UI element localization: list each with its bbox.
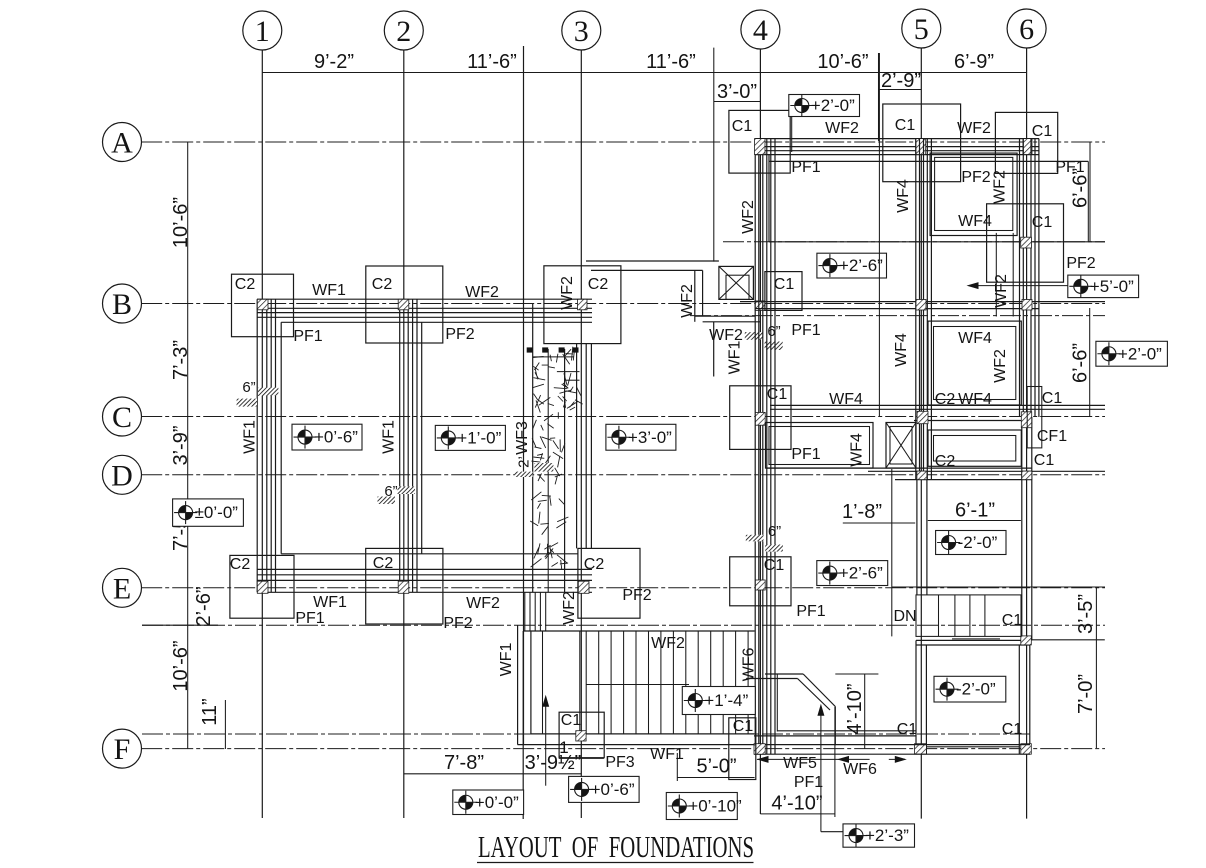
grid bubble F bbox=[103, 729, 142, 768]
svg-text:WF3: WF3 bbox=[514, 421, 531, 455]
svg-text:PF1: PF1 bbox=[796, 603, 825, 620]
svg-text:C1: C1 bbox=[774, 276, 795, 293]
rubble hatch in stair strip bbox=[530, 347, 583, 570]
column C2 at B2 bbox=[366, 266, 443, 343]
svg-text:+2’-0”: +2’-0” bbox=[811, 96, 855, 115]
svg-text:9’-2”: 9’-2” bbox=[314, 51, 354, 73]
svg-text:6’-1”: 6’-1” bbox=[955, 500, 995, 522]
svg-text:+1’-0”: +1’-0” bbox=[457, 428, 501, 447]
svg-text:WF2: WF2 bbox=[992, 349, 1009, 383]
column C2 at E3 bbox=[578, 548, 640, 618]
grid bubble 1 bbox=[243, 11, 282, 50]
svg-text:11”: 11” bbox=[199, 698, 221, 725]
stub wall x777 bbox=[776, 674, 778, 732]
column hatch A6 bbox=[1023, 139, 1032, 155]
svg-text:11’-6”: 11’-6” bbox=[646, 51, 696, 73]
wall footing WF4 room A (nested rects) bbox=[930, 153, 1017, 235]
wall grid 5 rows D-E bbox=[916, 480, 918, 595]
grid bubble A bbox=[103, 123, 142, 162]
level marker +2-6 upper bbox=[817, 253, 887, 278]
wall band below E left of stairs bbox=[524, 592, 526, 631]
svg-text:C: C bbox=[112, 401, 132, 434]
svg-text:A: A bbox=[111, 127, 133, 160]
svg-text:11’-6”: 11’-6” bbox=[467, 51, 517, 73]
svg-text:E: E bbox=[113, 572, 131, 605]
column C1 box at E4 bbox=[730, 557, 791, 606]
column hatch D5 bbox=[917, 471, 927, 480]
secondary line F2 bbox=[142, 733, 1030, 735]
level marker +2-3 bbox=[843, 824, 915, 847]
svg-text:7’-0”: 7’-0” bbox=[1075, 674, 1097, 714]
column C1 box at A6 bbox=[995, 112, 1057, 173]
level marker +0-10 bbox=[666, 793, 742, 820]
svg-text:PF1: PF1 bbox=[293, 328, 322, 345]
column C2 at B3 bbox=[544, 266, 621, 344]
svg-text:C1: C1 bbox=[1002, 721, 1023, 738]
column hatch B4 bbox=[755, 301, 765, 311]
svg-text:10’-6”: 10’-6” bbox=[817, 51, 868, 73]
svg-text:2: 2 bbox=[396, 15, 411, 48]
column hatch C6 bbox=[1021, 412, 1031, 428]
column C2 at E1 bbox=[230, 555, 294, 618]
sub dim 3'-0" bbox=[714, 101, 761, 103]
svg-text:6”: 6” bbox=[768, 523, 781, 540]
extension line y674 bbox=[835, 673, 878, 675]
dim 6'-6" upper right bbox=[1089, 142, 1091, 242]
svg-text:LAYOUT OF FOUNDATIONS: LAYOUT OF FOUNDATIONS bbox=[478, 829, 754, 864]
grid bubble B bbox=[103, 284, 142, 323]
svg-text:WF1: WF1 bbox=[242, 420, 259, 454]
stair steps detail bbox=[557, 371, 580, 373]
svg-text:PF1: PF1 bbox=[295, 610, 324, 627]
svg-text:C2: C2 bbox=[935, 391, 956, 408]
6 inch wall mark at B4 bbox=[745, 332, 763, 340]
level marker +-0-0 bbox=[173, 499, 244, 526]
svg-text:6’-9”: 6’-9” bbox=[954, 51, 994, 73]
svg-text:+0’-10”: +0’-10” bbox=[688, 797, 742, 816]
6 inch wall mark near C1 bbox=[258, 388, 278, 396]
horizontal grid line A bbox=[141, 141, 1105, 143]
section arrow up 1 bbox=[545, 703, 547, 786]
column hatch A5 bbox=[916, 139, 926, 155]
level marker +3-0 bbox=[606, 424, 676, 450]
svg-text:WF2: WF2 bbox=[465, 284, 499, 301]
svg-text:10’-6”: 10’-6” bbox=[170, 197, 192, 248]
top dimension line bbox=[262, 72, 1026, 74]
chamfered footing outline inner bbox=[746, 678, 797, 680]
svg-text:WF6: WF6 bbox=[843, 761, 877, 778]
svg-text:WF2: WF2 bbox=[993, 274, 1010, 308]
column hatch E6 bbox=[1021, 636, 1032, 645]
left dimension line bbox=[187, 142, 189, 749]
2ft wall mark at D3 bbox=[534, 463, 553, 472]
column C1 box at A4 bbox=[729, 110, 790, 173]
6 inch wall mark near D2 bbox=[398, 487, 416, 495]
svg-text:C1: C1 bbox=[895, 117, 916, 134]
column hatch at C1 bottom left bbox=[576, 731, 586, 741]
svg-text:6”: 6” bbox=[242, 379, 255, 396]
svg-text:PF2: PF2 bbox=[443, 615, 472, 632]
wall footing row F band bbox=[518, 744, 1031, 746]
svg-text:C1: C1 bbox=[732, 118, 753, 135]
wall WF2 lower step to grid4 bbox=[695, 315, 755, 317]
svg-text:WF5: WF5 bbox=[783, 755, 817, 772]
svg-text:+0’-6”: +0’-6” bbox=[314, 428, 358, 447]
column hatch F6 bbox=[1021, 744, 1032, 755]
svg-text:5: 5 bbox=[914, 13, 929, 46]
vertical grid line 2 bbox=[403, 50, 405, 819]
svg-text:PF1: PF1 bbox=[791, 446, 820, 463]
grid bubble 5 bbox=[902, 9, 941, 48]
wall stub below corridor bbox=[713, 322, 715, 377]
wall WF2 below room A bbox=[995, 233, 997, 317]
svg-text:PF2: PF2 bbox=[1066, 255, 1095, 272]
row A2 solid lines bbox=[769, 241, 1105, 243]
svg-text:6’-6”: 6’-6” bbox=[1070, 343, 1092, 383]
secondary line E2 bbox=[142, 624, 1105, 626]
level marker +1-4 bbox=[682, 687, 755, 715]
svg-text:C2: C2 bbox=[935, 453, 956, 470]
svg-text:WF2: WF2 bbox=[825, 120, 859, 137]
stair DN treads bbox=[938, 595, 940, 637]
vertical grid line 4 bbox=[759, 49, 761, 814]
level marker +2-0 top bbox=[789, 94, 860, 117]
leader from top marker bbox=[791, 117, 793, 153]
svg-text:3: 3 bbox=[574, 15, 589, 48]
secondary line A2 bbox=[723, 241, 1105, 243]
wall footing grid 3 (B3-E3) bbox=[576, 344, 578, 549]
chamfered footing outline outer bbox=[765, 673, 803, 675]
level marker +0-0 bbox=[453, 790, 524, 815]
svg-text:PF1: PF1 bbox=[791, 159, 820, 176]
grid bubble 4 bbox=[741, 10, 780, 49]
svg-text:+5’-0”: +5’-0” bbox=[1090, 277, 1134, 296]
level marker +1-0 bbox=[435, 425, 505, 450]
level marker +0-6 bottom bbox=[569, 776, 640, 802]
column C2 at E2 bbox=[366, 548, 443, 624]
wall grid 6 rows C-E bbox=[1021, 417, 1023, 640]
svg-text:10’-6”: 10’-6” bbox=[170, 640, 192, 691]
column hatch B2 bbox=[398, 299, 409, 310]
svg-text:C2: C2 bbox=[588, 276, 609, 293]
svg-text:+2’-6”: +2’-6” bbox=[839, 564, 883, 583]
svg-text:WF2: WF2 bbox=[740, 200, 757, 234]
svg-text:C1: C1 bbox=[733, 718, 754, 735]
svg-text:PF1: PF1 bbox=[794, 774, 823, 791]
svg-text:WF1: WF1 bbox=[498, 643, 515, 677]
svg-text:7’-3”: 7’-3” bbox=[170, 340, 192, 380]
row C band right: footing lines bbox=[770, 404, 1105, 406]
wall footing WF4 room C-D nested rects bbox=[928, 430, 1021, 466]
wall footing WF1 row B (grid1-grid2) and WF2 (grid2-grid3) bbox=[257, 298, 592, 300]
wall footing WF2 row A bbox=[755, 138, 1039, 140]
column X-box at CD5 bbox=[886, 423, 916, 469]
pad CF1 box bbox=[1027, 387, 1042, 448]
svg-text:+3’-0”: +3’-0” bbox=[628, 428, 672, 447]
column hatch C5 bbox=[917, 411, 928, 423]
pad strip PF row E bbox=[281, 553, 578, 555]
svg-text:1’-8”: 1’-8” bbox=[842, 501, 882, 523]
level marker +0-6 row C bbox=[292, 424, 362, 450]
svg-text:D: D bbox=[111, 459, 133, 492]
column X-box at B4 bbox=[719, 266, 754, 299]
wall footing row E bbox=[257, 568, 592, 570]
grid bubble C bbox=[103, 397, 142, 436]
row E solid right bbox=[892, 586, 1105, 588]
column hatch E4 bbox=[755, 580, 765, 590]
svg-text:WF2: WF2 bbox=[651, 635, 685, 652]
svg-text:WF4: WF4 bbox=[958, 330, 992, 347]
vertical grid line 5 bbox=[920, 48, 922, 819]
svg-text:3’-5”: 3’-5” bbox=[1075, 594, 1097, 634]
svg-text:WF2: WF2 bbox=[466, 595, 500, 612]
grid bubble D bbox=[103, 455, 142, 494]
column C1 box bottom mid bbox=[729, 718, 756, 780]
wall footing grid 5 band bbox=[915, 139, 917, 480]
wall footing WF1 grid 2 bbox=[399, 299, 401, 592]
stair block outline bbox=[517, 625, 519, 744]
stair treads big bbox=[585, 631, 587, 734]
stair strip wall WF3 left lines bbox=[523, 46, 525, 745]
black squares row bbox=[527, 347, 533, 352]
svg-text:+2’-6”: +2’-6” bbox=[839, 256, 883, 275]
svg-text:WF4: WF4 bbox=[849, 433, 866, 467]
level marker -2-0 lower bbox=[934, 676, 1006, 702]
svg-text:B: B bbox=[112, 288, 132, 321]
svg-text:3’-9½”: 3’-9½” bbox=[525, 752, 582, 774]
stair DN outline bbox=[916, 595, 1021, 637]
dim 1'-8" bbox=[843, 522, 915, 524]
svg-text:WF1: WF1 bbox=[313, 594, 347, 611]
svg-text:C1: C1 bbox=[1034, 452, 1055, 469]
svg-text:±0’-0”: ±0’-0” bbox=[195, 503, 239, 522]
svg-text:DN: DN bbox=[893, 608, 916, 625]
vertical grid line 3 bbox=[580, 50, 582, 819]
vertical grid line 1 bbox=[261, 50, 263, 819]
svg-text:C2: C2 bbox=[584, 556, 605, 573]
svg-text:C2: C2 bbox=[235, 276, 256, 293]
level marker +2-6 lower bbox=[817, 561, 888, 586]
column C1 box at A5 bbox=[883, 104, 961, 182]
dim 4'-10" bottom bbox=[760, 813, 835, 815]
dim 4'-10" rotated bbox=[864, 674, 866, 749]
column hatch E2 bbox=[398, 581, 409, 593]
dim 5'-0" bbox=[677, 777, 754, 779]
svg-text:6: 6 bbox=[1019, 13, 1034, 46]
grid bubble E bbox=[103, 568, 142, 607]
svg-text:F: F bbox=[114, 733, 131, 766]
svg-text:1: 1 bbox=[255, 15, 270, 48]
wall footing WF1 grid 1 bbox=[256, 299, 258, 592]
svg-text:4: 4 bbox=[753, 14, 768, 47]
row D band right bbox=[766, 467, 1033, 469]
grid bubble 6 bbox=[1007, 9, 1046, 48]
sub dim 2'-9" bbox=[879, 89, 922, 91]
svg-text:C2: C2 bbox=[373, 555, 394, 572]
wall footing bottom right room bbox=[916, 639, 1030, 641]
wall footing row B right bbox=[740, 301, 1105, 303]
svg-text:CF1: CF1 bbox=[1037, 428, 1067, 445]
column hatch B3 bbox=[578, 299, 588, 310]
svg-text:4’-10”: 4’-10” bbox=[844, 683, 866, 734]
line under stair room bbox=[1024, 639, 1105, 641]
pad strip PF grid 2 bbox=[421, 322, 423, 554]
column hatch A4 bbox=[755, 139, 766, 155]
svg-text:4’-10”: 4’-10” bbox=[771, 793, 822, 815]
svg-text:PF1: PF1 bbox=[791, 322, 820, 339]
svg-text:-2’-0”: -2’-0” bbox=[956, 680, 996, 699]
svg-text:WF2: WF2 bbox=[679, 284, 696, 318]
grid bubble 2 bbox=[384, 11, 423, 50]
svg-text:+0’-0”: +0’-0” bbox=[475, 793, 519, 812]
svg-text:C1: C1 bbox=[1002, 612, 1023, 629]
svg-text:WF1: WF1 bbox=[381, 420, 398, 454]
svg-text:WF2: WF2 bbox=[957, 120, 991, 137]
stair mid landing line bbox=[586, 684, 689, 686]
svg-text:PF2: PF2 bbox=[445, 326, 474, 343]
+5'-0" leader arrow bbox=[978, 285, 1068, 287]
horizontal grid line B bbox=[141, 303, 1105, 305]
wall footing WF4 room B-C nested rects bbox=[928, 321, 1021, 405]
svg-text:6”: 6” bbox=[767, 323, 780, 340]
pad strip PF row B bbox=[281, 321, 592, 323]
column C1 box bottom left bbox=[559, 712, 604, 758]
svg-text:WF1: WF1 bbox=[312, 282, 346, 299]
svg-text:WF1: WF1 bbox=[727, 341, 744, 375]
svg-text:C1: C1 bbox=[767, 386, 788, 403]
pad strip PF grid 1 bbox=[280, 322, 282, 554]
svg-text:PF2: PF2 bbox=[622, 587, 651, 604]
svg-text:WF6: WF6 bbox=[741, 648, 758, 682]
WF6 arrow right bbox=[889, 758, 905, 760]
wall WF2 vertical step bbox=[694, 270, 696, 321]
wall footing WF4/PF1 room C-D grids 4-5 bbox=[766, 423, 874, 469]
svg-text:+1’-4”: +1’-4” bbox=[704, 691, 748, 710]
svg-text:WF4: WF4 bbox=[829, 391, 863, 408]
svg-text:-2’-0”: -2’-0” bbox=[958, 533, 998, 552]
svg-text:2’-9”: 2’-9” bbox=[881, 70, 921, 92]
dim 6'-1" bbox=[928, 520, 1021, 522]
column hatch E1 bbox=[257, 581, 268, 593]
dim 3'-5" right bbox=[1095, 588, 1097, 640]
column C1 box at C4 bbox=[730, 386, 791, 450]
wall footing WF2 grid 4 band bbox=[754, 139, 756, 755]
pad strip PF1 row A bbox=[769, 160, 1088, 162]
grid bubble 3 bbox=[562, 11, 601, 50]
room outline right of grid4 rows A-A2 bbox=[768, 155, 770, 242]
level marker -2-0 upper bbox=[936, 531, 1006, 555]
svg-text:C2: C2 bbox=[230, 556, 251, 573]
column hatch B5 bbox=[916, 300, 926, 311]
svg-text:PF3: PF3 bbox=[605, 754, 634, 771]
dim 7'-0" right bbox=[1095, 640, 1097, 748]
wall footing grid 6 band bbox=[1019, 139, 1021, 417]
column hatch E3 bbox=[578, 581, 589, 593]
svg-text:6’-6”: 6’-6” bbox=[1070, 168, 1092, 208]
svg-text:+2’-3”: +2’-3” bbox=[865, 826, 909, 845]
level marker +2-0 right bbox=[1096, 341, 1168, 366]
svg-text:WF2: WF2 bbox=[991, 170, 1008, 204]
svg-text:C1: C1 bbox=[764, 557, 785, 574]
vertical grid line 6 bbox=[1026, 48, 1028, 819]
horizontal grid line E bbox=[141, 587, 1105, 589]
level marker +5-0 bbox=[1068, 275, 1139, 298]
svg-text:6”: 6” bbox=[384, 483, 397, 500]
svg-text:7’-8”: 7’-8” bbox=[444, 752, 484, 774]
column hatch C4 bbox=[755, 412, 765, 425]
dim 1 bbox=[559, 757, 604, 759]
svg-text:WF4: WF4 bbox=[893, 333, 910, 367]
horizontal grid line F bbox=[141, 748, 1105, 750]
WF5 arrow line bbox=[757, 758, 870, 760]
column C1 box at B4 bbox=[765, 272, 802, 311]
column hatch B1 bbox=[257, 299, 268, 310]
svg-text:WF1: WF1 bbox=[650, 746, 684, 763]
column hatch A2-6 bbox=[1021, 237, 1032, 248]
svg-text:5’-0”: 5’-0” bbox=[696, 756, 736, 778]
svg-text:C2: C2 bbox=[372, 276, 393, 293]
svg-text:PF2: PF2 bbox=[961, 169, 990, 186]
svg-text:C1: C1 bbox=[561, 712, 582, 729]
column hatch B6 bbox=[1022, 300, 1032, 311]
section line x879 bbox=[878, 53, 880, 417]
stair strip inner lines bbox=[547, 349, 549, 592]
svg-text:1: 1 bbox=[559, 738, 568, 757]
dim 6'-6" lower right bbox=[1089, 308, 1091, 417]
svg-text:WF4: WF4 bbox=[958, 391, 992, 408]
section arrow up 2 with leader bbox=[820, 712, 822, 832]
svg-text:+0’-6”: +0’-6” bbox=[591, 780, 635, 799]
horizontal grid line D bbox=[141, 474, 1105, 476]
svg-text:C1: C1 bbox=[1042, 390, 1063, 407]
column hatch F4 bbox=[754, 744, 765, 755]
svg-text:+2’-0”: +2’-0” bbox=[1118, 344, 1162, 363]
column C1 box at A2-6 bbox=[987, 204, 1064, 282]
svg-text:C1: C1 bbox=[1032, 123, 1053, 140]
wall footing WF2 upper path bbox=[586, 260, 719, 262]
svg-text:3’-0”: 3’-0” bbox=[717, 81, 757, 103]
svg-text:WF2: WF2 bbox=[559, 276, 576, 310]
column hatch F5 bbox=[915, 744, 927, 755]
svg-text:2’-6”: 2’-6” bbox=[193, 586, 215, 626]
svg-text:3’-9”: 3’-9” bbox=[170, 425, 192, 465]
bottom dim line 7-8 / 3-9.5 bbox=[404, 773, 582, 775]
6 inch wall mark at D4 bbox=[746, 535, 764, 542]
svg-text:WF4: WF4 bbox=[895, 179, 912, 213]
column C2 at B1 bbox=[232, 274, 294, 337]
column hatch D6 bbox=[1022, 471, 1032, 480]
svg-text:WF2: WF2 bbox=[561, 591, 578, 625]
horizontal grid line C bbox=[141, 416, 1105, 418]
